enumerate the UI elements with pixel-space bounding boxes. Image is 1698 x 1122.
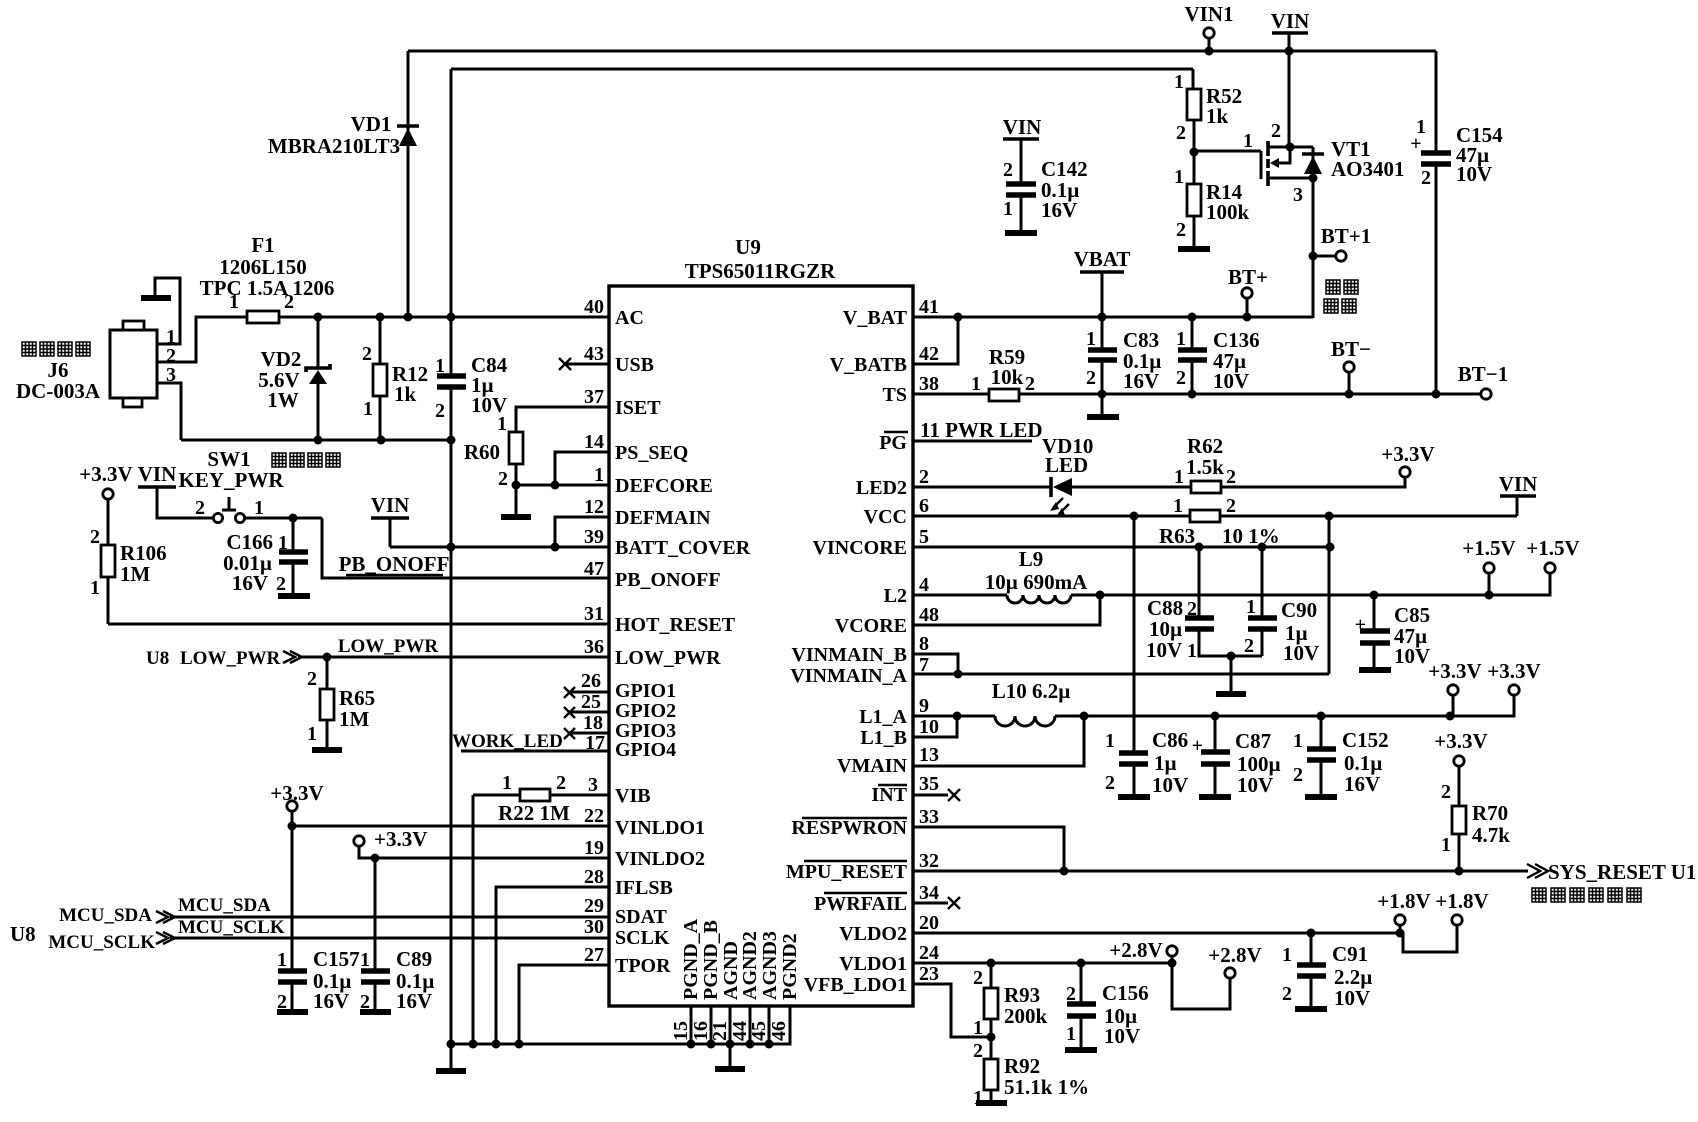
svg-text:MCU_SCLK: MCU_SCLK [48, 932, 155, 953]
svg-text:BT−: BT− [1331, 337, 1371, 361]
power VIN symbol (VCC) [1499, 472, 1538, 516]
svg-text:100k: 100k [1206, 200, 1250, 224]
svg-text:10V: 10V [1146, 638, 1182, 662]
node BT+ terminal [1228, 265, 1268, 317]
svg-text:1k: 1k [1206, 104, 1229, 128]
svg-text:TPS65011RGZR: TPS65011RGZR [685, 259, 836, 283]
svg-text:37: 37 [584, 386, 604, 408]
svg-text:+1.8V: +1.8V [1377, 889, 1430, 913]
switch SW1 KEY_PWR [179, 447, 341, 523]
U9 bottom pin names (rotated) [680, 918, 801, 1000]
wire AC net [279, 316, 609, 319]
svg-text:8: 8 [919, 633, 929, 655]
svg-text:TPOR: TPOR [615, 955, 671, 977]
wire L1_B link [913, 716, 957, 737]
node LOW_PWR input [146, 636, 609, 669]
ground (R60) [501, 514, 531, 520]
svg-text:VCC: VCC [864, 506, 907, 528]
svg-text:C91: C91 [1332, 942, 1368, 966]
svg-text:L2: L2 [884, 585, 907, 607]
svg-text:10V: 10V [1237, 773, 1273, 797]
svg-text:+: + [1410, 133, 1421, 155]
svg-text:VIN: VIN [371, 493, 410, 517]
svg-text:+1.5V: +1.5V [1462, 536, 1515, 560]
svg-text:1M: 1M [120, 562, 151, 586]
svg-text:16V: 16V [1123, 369, 1159, 393]
svg-text:2: 2 [276, 573, 286, 595]
wire V_BAT net [913, 313, 1313, 322]
svg-text:VIB: VIB [615, 785, 651, 807]
svg-text:1: 1 [1174, 166, 1184, 188]
svg-text:1: 1 [1003, 198, 1013, 220]
fuse F1 1206L150 [200, 233, 335, 323]
svg-text:1: 1 [1246, 596, 1256, 618]
svg-text:1W: 1W [267, 388, 299, 412]
svg-text:L1_A: L1_A [859, 706, 907, 728]
svg-text:LOW_PWR: LOW_PWR [338, 636, 439, 657]
resistor R14 100k [1174, 148, 1250, 248]
power VBAT symbol [1074, 247, 1131, 317]
svg-text:1: 1 [1187, 640, 1197, 662]
svg-text:16V: 16V [396, 989, 432, 1013]
ground (R14) [1178, 246, 1210, 252]
svg-text:10V: 10V [1213, 369, 1249, 393]
capacitor C152 0.1u 16V [1293, 716, 1389, 797]
svg-text:15: 15 [670, 1021, 692, 1041]
svg-text:1: 1 [277, 949, 287, 971]
svg-text:VIN: VIN [1003, 115, 1042, 139]
svg-text:R60: R60 [464, 440, 500, 464]
svg-text:DEFCORE: DEFCORE [615, 475, 713, 497]
svg-text:24: 24 [919, 942, 939, 964]
wire PB_ONOFF [322, 518, 609, 578]
svg-text:MCU_SDA: MCU_SDA [178, 895, 271, 916]
wire DEFMAIN link [551, 517, 610, 552]
svg-text:1: 1 [1173, 495, 1183, 517]
svg-text:MBRA210LT3: MBRA210LT3 [268, 134, 400, 158]
svg-text:USB: USB [615, 354, 654, 376]
svg-text:1: 1 [1174, 71, 1184, 93]
node +1.5V terminals [1462, 536, 1579, 600]
svg-text:36: 36 [584, 636, 604, 658]
svg-text:1: 1 [497, 413, 507, 435]
svg-text:BT+: BT+ [1228, 265, 1268, 289]
wire PWRFAIL stub [913, 897, 960, 909]
svg-text:VLDO2: VLDO2 [839, 923, 907, 945]
svg-text:34: 34 [919, 882, 939, 904]
svg-text:VIN1: VIN1 [1184, 2, 1233, 26]
svg-text:16V: 16V [232, 571, 268, 595]
svg-text:1: 1 [594, 464, 604, 486]
svg-text:2: 2 [1086, 367, 1096, 389]
svg-text:1: 1 [1174, 466, 1184, 488]
U9 left pin numbers [581, 296, 605, 966]
svg-text:1: 1 [307, 723, 317, 745]
svg-text:L10 6.2µ: L10 6.2µ [992, 679, 1071, 703]
svg-text:13: 13 [919, 744, 939, 766]
svg-text:1: 1 [360, 949, 370, 971]
svg-text:U8: U8 [146, 648, 169, 669]
svg-text:L9: L9 [1019, 547, 1044, 571]
svg-text:26: 26 [581, 670, 601, 692]
svg-text:1: 1 [254, 497, 264, 519]
resistor R22 1M (VIB) [473, 772, 609, 825]
ground (C157) [277, 1009, 308, 1015]
svg-text:PB_ONOFF: PB_ONOFF [615, 569, 721, 591]
svg-text:2: 2 [195, 497, 205, 519]
wire J6 pin3 down to bus [157, 383, 181, 440]
svg-text:20: 20 [919, 912, 939, 934]
ground (C83) [1087, 390, 1119, 418]
svg-text:38: 38 [919, 373, 939, 395]
svg-text:VINMAIN_B: VINMAIN_B [791, 644, 907, 666]
ground (bus AGND) [715, 1044, 745, 1069]
wire VINCORE net [913, 543, 1335, 552]
node +3.3V terminal (R70) [1434, 729, 1487, 766]
svg-text:BATT_COVER: BATT_COVER [615, 537, 751, 559]
svg-text:2: 2 [1421, 167, 1431, 189]
node BT+1 terminal [1309, 224, 1372, 261]
svg-text:10V: 10V [1283, 641, 1319, 665]
wire BATT_COVER [390, 543, 609, 552]
svg-text:VINLDO1: VINLDO1 [615, 817, 705, 839]
wire top rail 2 [451, 68, 1193, 71]
wire RESPWRON link [913, 827, 1064, 871]
svg-text:V_BAT: V_BAT [843, 307, 908, 329]
svg-text:DEFMAIN: DEFMAIN [615, 507, 711, 529]
svg-text:2: 2 [1187, 598, 1197, 620]
svg-text:VLDO1: VLDO1 [839, 953, 907, 975]
transistor VT1 AO3401 p-MOSFET [1194, 51, 1405, 206]
svg-text:R63: R63 [1159, 524, 1195, 548]
wire GND bus (charger) [181, 439, 451, 442]
svg-text:10 1%: 10 1% [1222, 524, 1280, 548]
svg-text:1µ: 1µ [1154, 751, 1177, 775]
svg-text:2: 2 [1271, 120, 1281, 142]
svg-text:PGND_B: PGND_B [700, 920, 722, 1000]
wire J6 pin2 up to F1 [157, 317, 247, 362]
U9 left pin names [615, 307, 751, 977]
inductor L10 6.2u [913, 679, 1450, 726]
svg-text:10V: 10V [1334, 986, 1370, 1010]
svg-text:MCU_SCLK: MCU_SCLK [178, 917, 285, 938]
svg-text:1: 1 [1086, 328, 1096, 350]
wire IFLSB [496, 887, 609, 1044]
svg-text:C152: C152 [1342, 728, 1389, 752]
svg-text:+3.3V: +3.3V [270, 781, 323, 805]
wire V_BATB link [913, 317, 958, 364]
node VIN1 terminal [1184, 2, 1233, 56]
svg-text:16V: 16V [1344, 772, 1380, 796]
resistor R65 1M [307, 657, 375, 748]
capacitor C154 47u 10V [1410, 51, 1503, 394]
ground (C142) [1005, 230, 1037, 236]
svg-text:2: 2 [973, 967, 983, 989]
svg-text:1: 1 [1105, 730, 1115, 752]
diode VD1 MBRA210LT3 [268, 51, 419, 317]
svg-text:+3.3V: +3.3V [1487, 659, 1540, 683]
node +3.3V terminal (R106) [270, 781, 323, 805]
svg-text:4.7k: 4.7k [1472, 823, 1510, 847]
wire PG stub + label PWR LED [913, 418, 1043, 442]
svg-text:1: 1 [229, 291, 239, 313]
svg-text:+3.3V: +3.3V [1428, 659, 1481, 683]
wire VCORE link [913, 595, 1100, 625]
label charging port (CJK) [1324, 280, 1358, 313]
wire VINMAIN_B link [913, 654, 958, 674]
svg-text:16V: 16V [1041, 198, 1077, 222]
power VIN symbol (BATT_COVER) [371, 493, 410, 547]
svg-text:VCORE: VCORE [835, 615, 907, 637]
node BT- terminal [1331, 337, 1371, 399]
svg-text:C90: C90 [1281, 598, 1317, 622]
svg-text:C86: C86 [1152, 728, 1188, 752]
wire GPIO2 stub [564, 707, 609, 718]
svg-text:MCU_SDA: MCU_SDA [59, 905, 152, 926]
svg-text:+3.3V: +3.3V [79, 462, 132, 486]
power VIN symbol (SW1) [138, 462, 213, 518]
svg-text:VMAIN: VMAIN [837, 755, 908, 777]
connector J6 DC-003A [16, 321, 176, 407]
svg-text:L1_B: L1_B [860, 727, 907, 749]
resistor R63 10 1% [1159, 495, 1517, 548]
svg-text:PG: PG [879, 432, 907, 454]
wire bottom GND bus [447, 1006, 791, 1049]
svg-text:1: 1 [973, 1017, 983, 1039]
svg-text:IFLSB: IFLSB [615, 877, 673, 899]
svg-text:5: 5 [919, 526, 929, 548]
capacitor C86 1u 10V [1105, 516, 1188, 797]
wire J6 pin1 to chassis [155, 278, 180, 344]
svg-text:VIN: VIN [1271, 9, 1310, 33]
inductor L9 10u 690mA [913, 547, 1489, 603]
svg-text:LOW_PWR: LOW_PWR [615, 647, 721, 669]
svg-text:10: 10 [919, 716, 939, 738]
svg-text:PB_ONOFF: PB_ONOFF [339, 552, 450, 576]
svg-text:VIN: VIN [1499, 472, 1538, 496]
ground (R65) [312, 747, 342, 753]
svg-text:+3.3V: +3.3V [374, 827, 427, 851]
resistor R62 1.5k [1174, 434, 1405, 493]
svg-text:VINMAIN_A: VINMAIN_A [790, 665, 907, 687]
wire VINLDO1 [292, 825, 609, 828]
node +2.8V terminal 2 [1172, 943, 1262, 1009]
svg-text:LED2: LED2 [856, 477, 907, 499]
svg-text:AO3401: AO3401 [1331, 157, 1405, 181]
svg-text:SCLK: SCLK [615, 927, 670, 949]
svg-text:VINCORE: VINCORE [813, 537, 907, 559]
svg-text:2: 2 [1176, 122, 1186, 144]
svg-text:1: 1 [1243, 130, 1253, 152]
node +3.3V terminal (VINLDO1) [287, 801, 297, 831]
svg-text:VINLDO2: VINLDO2 [615, 848, 705, 870]
svg-text:2: 2 [1105, 772, 1115, 794]
svg-text:TS: TS [883, 384, 907, 406]
capacitor C136 47u 10V [1176, 317, 1260, 399]
wire VCC net [913, 512, 1190, 521]
node +3.3V terminal (VINLDO2) [354, 827, 428, 863]
svg-text:+3.3V: +3.3V [1434, 729, 1487, 753]
resistor R92 51.1k 1% [973, 1040, 1089, 1109]
svg-text:22: 22 [584, 805, 604, 827]
ground chassis bar (J6 pin1) [141, 295, 171, 301]
svg-text:F1: F1 [251, 233, 274, 257]
svg-text:+2.8V: +2.8V [1109, 938, 1162, 962]
svg-text:2: 2 [973, 1040, 983, 1062]
svg-text:VIN: VIN [138, 462, 177, 486]
svg-text:2: 2 [1066, 983, 1076, 1005]
svg-text:1: 1 [1066, 1023, 1076, 1045]
svg-text:1: 1 [1293, 730, 1303, 752]
svg-text:19: 19 [584, 837, 604, 859]
svg-text:PGND_A: PGND_A [680, 918, 702, 1000]
svg-text:1: 1 [971, 373, 981, 395]
diode VD2 zener 5.6V [258, 317, 330, 440]
svg-text:2: 2 [362, 343, 372, 365]
resistor R93 200k [973, 963, 1048, 1059]
svg-text:6: 6 [919, 495, 929, 517]
capacitor C84 1u 10V [435, 69, 508, 440]
svg-text:2: 2 [1176, 219, 1186, 241]
wire DEFCORE [516, 484, 609, 487]
svg-text:14: 14 [584, 431, 604, 453]
svg-text:2: 2 [1282, 983, 1292, 1005]
wire VMAIN rail riser [1328, 516, 1331, 674]
resistor R12 1k [362, 317, 428, 440]
node +3.3V terminals (L1_A) [1428, 659, 1540, 721]
svg-text:VFB_LDO1: VFB_LDO1 [804, 974, 907, 996]
wire VINMAIN_A [913, 670, 1329, 679]
svg-text:BT−1: BT−1 [1458, 362, 1508, 386]
ground (bus left) [436, 1044, 466, 1071]
svg-text:1: 1 [363, 398, 373, 420]
svg-text:+1.5V: +1.5V [1526, 536, 1579, 560]
wire VINLDO2 [375, 857, 609, 860]
svg-text:41: 41 [919, 296, 939, 318]
svg-text:C87: C87 [1235, 729, 1271, 753]
svg-text:PS_SEQ: PS_SEQ [615, 442, 688, 464]
svg-text:KEY_PWR: KEY_PWR [179, 468, 285, 492]
capacitor C89 0.1u 16V [360, 858, 434, 1013]
svg-text:10V: 10V [1152, 773, 1188, 797]
svg-text:2: 2 [1244, 635, 1254, 657]
svg-text:23: 23 [919, 963, 939, 985]
wire top rail 1 [408, 50, 1436, 53]
capacitor C156 10u 10V [1065, 963, 1149, 1050]
svg-text:25: 25 [581, 691, 601, 713]
svg-text:33: 33 [919, 806, 939, 828]
node +3.3V terminal (LED2) [1381, 442, 1434, 477]
U9 right pin numbers [919, 296, 939, 985]
op-amp U9 IC body TPS65011RGZR [609, 235, 913, 1006]
capacitor C83 0.1u 16V [1086, 317, 1161, 394]
wire INT stub [913, 789, 960, 801]
svg-text:V_BATB: V_BATB [830, 354, 907, 376]
svg-text:27: 27 [584, 944, 604, 966]
capacitor C157 0.1u 16V [277, 826, 360, 1013]
wire VLDO1 net [913, 959, 1177, 968]
capacitor C88 10u 10V [1146, 547, 1262, 662]
svg-text:1: 1 [1282, 944, 1292, 966]
wire PS_SEQ link [551, 452, 610, 490]
svg-text:SDAT: SDAT [615, 906, 668, 928]
svg-text:TPC 1.5A 1206: TPC 1.5A 1206 [200, 276, 335, 300]
svg-text:39: 39 [584, 526, 604, 548]
svg-text:+1.8V: +1.8V [1435, 889, 1488, 913]
svg-text:35: 35 [919, 773, 939, 795]
power VIN symbol (top) [1271, 9, 1310, 147]
wire GPIO3 stub [564, 728, 609, 739]
node +1.8V terminals [1377, 889, 1488, 952]
wire long vertical GND riser [450, 440, 453, 1044]
svg-text:30: 30 [584, 916, 604, 938]
svg-text:1: 1 [278, 532, 288, 554]
diode VD10 LED [913, 434, 1191, 517]
svg-text:+3.3V: +3.3V [1381, 442, 1434, 466]
svg-text:1M: 1M [339, 707, 370, 731]
svg-text:2: 2 [1293, 764, 1303, 786]
svg-text:LOW_PWR: LOW_PWR [180, 648, 281, 669]
svg-text:HOT_RESET: HOT_RESET [615, 614, 736, 636]
svg-text:1.5k: 1.5k [1186, 455, 1224, 479]
node MCU_SCLK input [10, 917, 609, 953]
svg-text:AGND3: AGND3 [759, 931, 781, 1000]
svg-text:GPIO1: GPIO1 [615, 680, 676, 702]
svg-text:12: 12 [584, 496, 604, 518]
ground (C88/C90) [1216, 656, 1246, 694]
svg-text:10V: 10V [1394, 644, 1430, 668]
svg-text:1: 1 [502, 772, 512, 794]
svg-text:16V: 16V [313, 989, 349, 1013]
svg-text:VD1: VD1 [351, 112, 392, 136]
svg-text:2: 2 [90, 526, 100, 548]
node +2.8V terminal 1 [1109, 938, 1177, 963]
U9 right pin names [786, 307, 908, 996]
svg-text:SYS_RESET U1: SYS_RESET U1 [1548, 860, 1696, 884]
svg-text:18: 18 [583, 712, 603, 734]
capacitor C142 0.1u 16V [1003, 157, 1088, 231]
svg-text:1: 1 [1176, 328, 1186, 350]
svg-text:3: 3 [1293, 184, 1303, 206]
svg-text:+2.8V: +2.8V [1208, 943, 1261, 967]
svg-text:U8: U8 [10, 922, 36, 946]
wire WORK_LED to GPIO4 [452, 731, 609, 752]
svg-text:32: 32 [919, 850, 939, 872]
svg-text:2: 2 [1003, 159, 1013, 181]
svg-text:1k: 1k [394, 382, 417, 406]
wire USB stub [559, 358, 609, 370]
node BT-1 terminal [1432, 362, 1509, 399]
svg-text:46: 46 [768, 1021, 790, 1041]
svg-text:2: 2 [435, 400, 445, 422]
svg-text:C157: C157 [313, 947, 360, 971]
svg-text:2: 2 [498, 468, 508, 490]
svg-text:10V: 10V [1104, 1024, 1140, 1048]
svg-text:C89: C89 [396, 947, 432, 971]
svg-text:40: 40 [584, 296, 604, 318]
resistor R60 [464, 413, 523, 515]
svg-text:1: 1 [1441, 834, 1451, 856]
capacitor C87 100u 10V [1192, 716, 1281, 797]
svg-text:48: 48 [919, 604, 939, 626]
svg-text:42: 42 [919, 343, 939, 365]
U9 bottom pin numbers (rotated) [670, 1021, 790, 1041]
wire MPU_RESET / SYS_RESET [913, 860, 1696, 902]
svg-text:ISET: ISET [615, 397, 661, 419]
resistor R70 4.7k [1441, 766, 1510, 871]
svg-text:10V: 10V [1456, 162, 1492, 186]
ground (C89) [360, 1009, 391, 1015]
